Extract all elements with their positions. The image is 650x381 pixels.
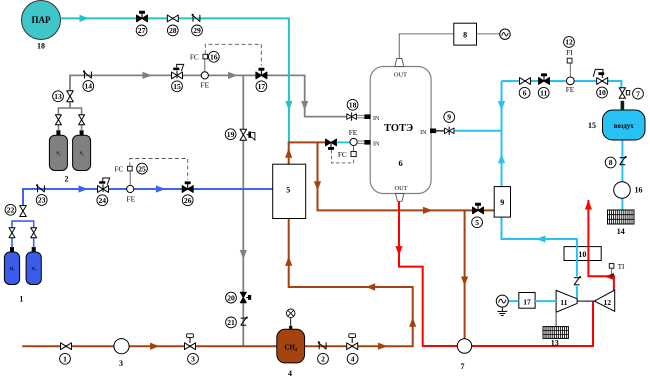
- TOTE IN label right: [420, 130, 427, 136]
- AC source for motor: [496, 295, 508, 307]
- wire: N2 bottle manifold: [58, 108, 81, 131]
- wire: burner outlet line down to mixer 7: [464, 210, 466, 339]
- svg-text:18: 18: [349, 101, 357, 110]
- svg-text:9: 9: [500, 198, 504, 207]
- wire: air supply line from bottle 15: [502, 81, 622, 88]
- label 16: [635, 185, 643, 194]
- label valve 4: [347, 353, 358, 364]
- flow arrow on H2 line: [79, 185, 89, 192]
- flow arrow on N2 purge branch: [240, 250, 247, 260]
- flow controller FC 25: [128, 166, 133, 171]
- svg-text:15: 15: [588, 121, 596, 130]
- label 15: [172, 81, 183, 92]
- TOTE IN label top-left: [373, 116, 380, 122]
- svg-text:8: 8: [609, 158, 613, 167]
- air bottle 15 (воздух): [603, 110, 646, 140]
- wire: FE to anode inlet nozzle (double): [357, 141, 364, 143]
- valve 22: [20, 206, 27, 217]
- mixer 7: [457, 339, 471, 353]
- turbine 12: [594, 290, 614, 311]
- check valve 23: [36, 184, 44, 192]
- svg-text:29: 29: [193, 26, 201, 35]
- svg-text:14: 14: [85, 82, 93, 91]
- label valve 8: [605, 157, 616, 168]
- label valve 2: [318, 353, 329, 364]
- flow arrow into valve 5: [423, 207, 433, 214]
- check valve 18: [347, 112, 357, 120]
- flow element FE on anode feed: [350, 138, 357, 145]
- FE label: [201, 81, 210, 90]
- svg-text:N₂: N₂: [79, 151, 84, 156]
- svg-text:17: 17: [258, 82, 266, 91]
- svg-text:26: 26: [184, 196, 192, 205]
- flow controller FC anode: [351, 151, 356, 156]
- label 27: [136, 25, 147, 36]
- svg-text:FC: FC: [190, 53, 199, 62]
- label 14: [83, 81, 94, 92]
- FE label air: [566, 85, 575, 94]
- svg-text:1: 1: [63, 355, 67, 364]
- svg-text:2: 2: [65, 175, 69, 184]
- air bottle top fitting: [621, 101, 625, 110]
- svg-text:16: 16: [210, 53, 218, 62]
- label pump 3: [119, 359, 123, 368]
- wire: compressor intake from filter 13: [555, 312, 557, 326]
- svg-text:1: 1: [19, 294, 23, 303]
- flow arrow on H2 line 2: [156, 185, 166, 192]
- svg-text:6: 6: [398, 158, 402, 168]
- flow controller FC 16: [203, 54, 208, 59]
- H2 gas bottles (1): [4, 246, 41, 285]
- air break symbol Z on compressor line: [572, 276, 581, 286]
- label valve 5: [472, 217, 483, 228]
- svg-text:22: 22: [7, 206, 15, 215]
- svg-text:ТОТЭ: ТОТЭ: [384, 123, 413, 134]
- flow arrow on N2 line before branch: [228, 72, 238, 79]
- CH4 tank 4: [277, 329, 305, 363]
- wire: valve 18 to anode nozzle (double): [356, 115, 364, 117]
- label 25: [137, 163, 148, 174]
- svg-text:27: 27: [138, 26, 146, 35]
- check valve 8 on air bottle outlet: [620, 156, 627, 165]
- svg-text:21: 21: [227, 318, 235, 327]
- check valve 2: [318, 341, 326, 349]
- recuperator 10: [564, 247, 601, 261]
- AC source symbol at box 8: [500, 29, 510, 39]
- svg-text:13: 13: [54, 92, 62, 101]
- wire: turbine exhaust through recuperator 10: [587, 247, 589, 261]
- valve 15 (solenoid): [172, 64, 184, 78]
- signal: FC anode to valve (dashed): [332, 150, 354, 163]
- svg-text:OUT: OUT: [395, 185, 408, 192]
- flow indicator FI 12: [567, 58, 572, 63]
- motor box 17: [519, 293, 535, 309]
- flow arrow vent up: [585, 200, 592, 210]
- flow arrow on steam line: [80, 15, 90, 22]
- temperature indicator TI: [609, 263, 625, 276]
- svg-text:H₂: H₂: [31, 266, 36, 271]
- label 28: [167, 25, 178, 36]
- svg-text:16: 16: [635, 185, 643, 194]
- wire: mixed fuel to flow element: [337, 141, 351, 143]
- valve 27 (control, closed): [137, 11, 148, 22]
- valve 24 (solenoid): [98, 178, 110, 192]
- flow element FE on N2 line: [201, 72, 208, 79]
- svg-text:N₂: N₂: [56, 151, 61, 156]
- label valve 3: [188, 353, 199, 364]
- signal: FC 16 to valve 17 (dashed): [205, 44, 261, 66]
- FC label anode: [338, 150, 347, 159]
- svg-text:24: 24: [99, 196, 107, 205]
- svg-text:FC: FC: [114, 164, 123, 173]
- valve 6: [520, 78, 531, 85]
- svg-text:OUT: OUT: [394, 71, 407, 78]
- valve 5 (control, closed): [473, 203, 484, 214]
- svg-text:4: 4: [288, 369, 292, 378]
- air heater 9: [494, 187, 510, 218]
- svg-text:TI: TI: [618, 263, 625, 271]
- TOTE label: [384, 123, 413, 134]
- svg-text:3: 3: [119, 359, 123, 368]
- node at TI tap on exhaust corner: [610, 274, 613, 277]
- svg-text:12: 12: [565, 38, 573, 47]
- FE label H2: [127, 194, 136, 203]
- wire: fuel bypass branch to afterburner 9: [318, 142, 495, 210]
- flow arrow air up: [498, 154, 505, 164]
- svg-text:5: 5: [286, 186, 290, 195]
- svg-text:FE: FE: [566, 85, 575, 94]
- TOTE cathode inlet nozzle (right): [430, 129, 436, 134]
- svg-text:19: 19: [227, 130, 235, 139]
- FC label 25: [114, 164, 123, 173]
- label valve 10: [597, 87, 608, 98]
- anode feed control valve (unnumbered): [326, 139, 337, 150]
- valve 1: [61, 343, 72, 350]
- signal: FC 25 to valve 26 (dashed): [130, 159, 188, 180]
- label 12: [564, 37, 575, 48]
- valve 7 on air bottle: [619, 88, 630, 99]
- svg-text:11: 11: [540, 89, 547, 98]
- wire: N2 main line from bottles to corner and to fuel-cell inlet valve 18: [70, 75, 347, 116]
- check valve 29: [192, 14, 200, 22]
- N2 gas bottles (2): [49, 129, 90, 170]
- flow arrow down to mixer 7: [461, 277, 468, 287]
- label 23: [36, 195, 47, 206]
- label valve 7: [633, 88, 644, 99]
- flow element FE on air line: [566, 77, 574, 85]
- FI label: [566, 49, 573, 57]
- svg-text:FC: FC: [338, 150, 347, 159]
- valve 3 (with cap): [185, 334, 196, 350]
- valve 28: [167, 15, 178, 22]
- fuel cell stack TOTE (6): [370, 67, 431, 194]
- svg-text:23: 23: [38, 196, 46, 205]
- valve 13: [67, 91, 74, 102]
- label 22: [5, 204, 16, 215]
- svg-text:8: 8: [463, 31, 467, 40]
- wire: hot exhaust from TOTE outlet to mixer 7 and turbine 12: [399, 201, 593, 346]
- label 18 valve: [347, 99, 358, 110]
- flow arrow on turbine exhaust: [605, 273, 615, 280]
- wire: air line from compressor through recuperator 10 to heater 9: [502, 81, 577, 301]
- wire: CH4 fuel line from tank 4 to riser and return to heat exchanger 5: [289, 219, 413, 347]
- label 10 on recuperator: [578, 250, 586, 259]
- valve 10 (pressure regulator): [593, 69, 607, 84]
- ground symbol under AC source: [497, 307, 507, 315]
- bottle valve right: [79, 115, 85, 125]
- label valve 6: [519, 87, 530, 98]
- svg-text:IN: IN: [373, 116, 380, 122]
- label 14: [617, 227, 625, 236]
- svg-text:FE: FE: [127, 194, 136, 203]
- label 29: [192, 25, 203, 36]
- TOTE OUT bottom: [395, 185, 408, 192]
- TOTE anode inlet nozzle (bottom): [364, 140, 370, 145]
- svg-text:17: 17: [523, 297, 531, 306]
- wire: motor 17 to compressor: [535, 300, 556, 302]
- TOTE IN label bottom-left: [373, 141, 380, 147]
- label 2: [65, 175, 69, 184]
- svg-text:11: 11: [560, 298, 567, 307]
- check valve 9: [444, 127, 454, 135]
- wire: steam line from ПАР tank to mixing point: [61, 18, 289, 142]
- label valve 11: [538, 87, 549, 98]
- wire: TOTE top outlet line to box 8: [399, 34, 454, 59]
- air filter 14: [608, 210, 635, 224]
- label 16: [208, 51, 219, 62]
- svg-text:5: 5: [475, 218, 479, 227]
- check valve 9 line: [435, 130, 444, 132]
- label 15: [588, 121, 596, 130]
- wire: box 8 to AC gauge: [477, 33, 500, 35]
- valve 4 (with cap): [347, 334, 358, 350]
- label 19: [225, 129, 236, 140]
- svg-text:9: 9: [447, 113, 451, 122]
- svg-text:воздух: воздух: [614, 123, 634, 130]
- pump 3: [114, 339, 129, 354]
- label 7: [461, 362, 465, 371]
- wire: N2 purge branch down to CH4 line: [242, 75, 244, 346]
- bottle valve left: [55, 115, 61, 125]
- svg-text:3: 3: [191, 355, 195, 364]
- flow arrow on bypass branch: [314, 181, 321, 191]
- FC label: [190, 53, 199, 62]
- svg-text:CH₄: CH₄: [284, 344, 298, 352]
- svg-text:ПАР: ПАР: [32, 15, 52, 25]
- valve 26 (control, closed): [182, 181, 193, 192]
- svg-text:20: 20: [227, 293, 235, 302]
- valve 11 (control, closed): [539, 73, 550, 84]
- wire: air bottle outlet down to filter 14: [621, 140, 623, 210]
- signal: FE to FI 12: [569, 63, 571, 77]
- rotameter 16: [614, 182, 631, 199]
- label 20: [226, 292, 237, 303]
- steam source tank 18 (ПАР): [22, 1, 61, 40]
- check valve 14: [83, 70, 91, 78]
- FE label anode: [349, 128, 358, 137]
- wire: CH4 fuel line bottom: [22, 345, 277, 347]
- flow arrow to mixing point: [285, 148, 292, 158]
- relief valve symbol on CH4 tank: [286, 309, 295, 318]
- svg-text:10: 10: [598, 88, 606, 97]
- TOTE OUT top: [394, 71, 407, 78]
- label 13: [551, 339, 559, 348]
- flow arrow on fuel line after tank: [378, 343, 388, 350]
- valve 17 (control, closed): [256, 68, 267, 79]
- shaft between compressor and turbine: [577, 300, 594, 302]
- flow arrow on steam line down: [285, 101, 292, 111]
- signal: FE to FC 16: [204, 59, 206, 72]
- wire: AC source to motor 17: [508, 300, 519, 302]
- label valve 1: [60, 353, 71, 364]
- load box 8: [454, 23, 477, 45]
- flow arrow on fuel return: [366, 283, 376, 290]
- label valve 9: [444, 112, 455, 123]
- signal: FE to FC 25: [129, 171, 131, 185]
- label 13: [53, 91, 64, 102]
- flow element FE on H2 line: [127, 185, 134, 192]
- check valve 21: [241, 317, 248, 326]
- flow arrow on fuel riser: [409, 317, 416, 327]
- svg-text:7: 7: [636, 89, 640, 98]
- label 1: [19, 294, 23, 303]
- svg-text:12: 12: [604, 298, 612, 307]
- wire: H2 line from bottles to heat exchanger 5: [23, 189, 273, 211]
- valve 20 (closed): [240, 292, 251, 303]
- flow arrow on N2 line: [143, 72, 153, 79]
- svg-text:IN: IN: [373, 141, 380, 147]
- label 18: [37, 42, 45, 51]
- wire: turbine exhaust to recuperator 10 and vent: [588, 200, 614, 290]
- label 4: [288, 369, 292, 378]
- wire: fuel line through heat exchanger 5 up to mixing point and to inlet valve: [289, 142, 326, 218]
- label 26: [182, 195, 193, 206]
- TOTE bottom nozzle: [396, 194, 404, 202]
- TOTE number 6: [398, 158, 402, 168]
- valve 19 (hand): [240, 129, 255, 140]
- flow arrow on N2 line down to valve 18: [301, 101, 308, 111]
- wire: air line from valve 9 into TOTE cathode inlet: [454, 130, 502, 132]
- svg-text:10: 10: [578, 250, 586, 259]
- compressor 11: [556, 290, 577, 312]
- svg-text:18: 18: [37, 42, 45, 51]
- svg-text:4: 4: [351, 355, 355, 364]
- svg-text:2: 2: [321, 355, 325, 364]
- svg-text:13: 13: [551, 339, 559, 348]
- intake filter 13: [543, 327, 568, 339]
- svg-text:14: 14: [617, 227, 625, 236]
- flow arrow air down: [498, 101, 505, 111]
- label 21: [226, 317, 237, 328]
- svg-text:FE: FE: [201, 81, 210, 90]
- svg-text:IN: IN: [420, 130, 427, 136]
- svg-text:15: 15: [173, 82, 181, 91]
- wire: H2 bottle manifold: [12, 221, 34, 247]
- svg-text:6: 6: [523, 89, 527, 98]
- H2 bottle valve left: [9, 228, 15, 238]
- svg-text:7: 7: [461, 362, 465, 371]
- CH4 tank top fitting: [289, 317, 292, 329]
- flow arrow into heat exchanger 5: [285, 256, 292, 266]
- svg-text:28: 28: [169, 26, 177, 35]
- signal: FE to FC anode: [353, 146, 355, 152]
- flow arrow on air line left: [536, 235, 546, 242]
- TOTE anode inlet nozzle (top): [364, 114, 370, 119]
- svg-text:H₂: H₂: [10, 266, 15, 271]
- flow arrow on fuel line: [150, 343, 160, 350]
- H2 bottle valve right: [31, 228, 37, 238]
- label 17: [256, 81, 267, 92]
- flow arrow on exhaust line: [395, 246, 402, 256]
- svg-text:25: 25: [138, 164, 146, 173]
- TOTE top nozzle: [395, 59, 404, 67]
- label 24: [97, 195, 108, 206]
- heat exchanger 5: [273, 164, 306, 218]
- svg-text:FI: FI: [566, 49, 573, 57]
- svg-text:FE: FE: [349, 128, 358, 137]
